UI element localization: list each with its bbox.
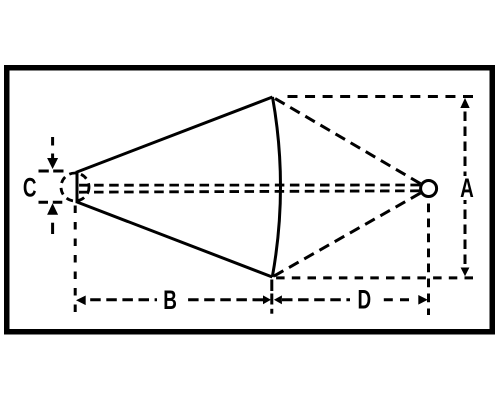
dimension C bottom reference dashes [39,201,65,204]
dimension C top reference dashes [39,170,65,173]
rope line lower [79,191,420,192]
cone bottom edge [77,202,272,277]
dimension C top stem [51,137,54,158]
dimension D line left part [282,298,350,301]
top reference line [288,95,474,98]
apex opening dashed circle [61,173,89,201]
svg-text:D: D [357,284,371,314]
dimension D line right part [379,298,409,301]
dimension B line right part [183,298,263,301]
tow ring [421,181,437,197]
extension line mid middle dash [270,294,273,305]
dimension D left arrow [274,295,282,304]
dimension A bottom stem [464,200,467,264]
svg-text:B: B [163,285,177,315]
dimension B right arrow [263,295,271,304]
dimension D right arrow [418,295,428,305]
extension line mid lower dash [270,309,273,314]
dimension C bottom arrow [47,203,58,215]
dimension A bottom arrow [461,268,470,277]
dimension A top stem [464,112,467,177]
extension line left (x=75) [74,205,77,312]
rope line upper [79,184,420,187]
dimension A top arrow [460,98,469,108]
dimension B line left part [90,298,157,301]
top bridle line [273,97,421,184]
mouth arc [272,97,280,277]
cone end face [76,171,79,203]
dimension C bottom stem [51,223,54,234]
svg-text:C: C [23,172,37,202]
bottom reference line [276,276,473,279]
svg-text:A: A [460,173,474,203]
dimension C top arrow [47,158,58,169]
extension line mid upper dash [270,280,273,292]
extension line right (x=428.5) [427,204,430,316]
cone top edge [77,97,273,172]
bottom bridle line [272,193,420,277]
dimension B left arrow [76,296,86,306]
